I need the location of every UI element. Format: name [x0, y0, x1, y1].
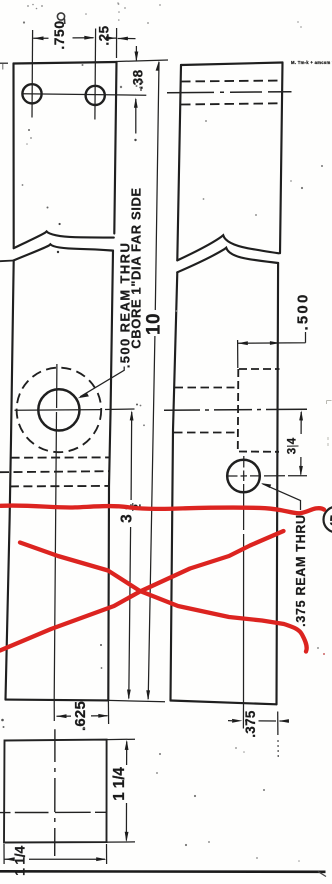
hole H4 horizontal centerline [226, 475, 307, 477]
view 2 hidden slot left line [237, 369, 240, 452]
svg-text:3: 3 [287, 448, 299, 454]
hole H3 .500 ream cbore [38, 389, 79, 430]
svg-text:.625: .625 [72, 701, 89, 731]
view 1 break line upper curve [14, 231, 114, 248]
leader to .375 ream hole [263, 484, 301, 510]
view 2 bar outline top edge [181, 63, 283, 66]
view 1 hidden line 2 [0, 471, 109, 472]
svg-text:CBORE 1"DIA FAR SIDE: CBORE 1"DIA FAR SIDE [129, 187, 144, 348]
view 1 bar left edge upper [12, 64, 14, 249]
svg-text:.500: .500 [295, 293, 312, 331]
red reviewer line [1, 506, 325, 514]
view 2 top centerline dash-dot [167, 92, 292, 93]
red X stroke A [0, 531, 284, 651]
extension of bottom edge to right [108, 700, 165, 701]
view 1 bar bottom edge [6, 699, 109, 702]
view 2 bar left edge upper [177, 65, 181, 260]
hole H2 right .25 drill [86, 86, 105, 105]
dimension 1 1/4 bottom [4, 844, 107, 864]
svg-text:4: 4 [287, 437, 299, 444]
svg-text:3: 3 [119, 514, 136, 523]
view 1 break line lower curve [14, 244, 113, 260]
dimension 10 [148, 62, 159, 699]
svg-text:.375 REAM THRU: .375 REAM THRU [294, 514, 308, 627]
end view vertical centerline [54, 729, 56, 856]
left margin fragment at break [0, 260, 14, 263]
hole H4 .375 ream [227, 460, 260, 493]
stray pen mark top [57, 13, 64, 24]
leader arrowhead ream [261, 483, 271, 488]
view 2 bar right edge lower [277, 263, 279, 704]
view 2 slot centerline dash-dot [164, 409, 307, 410]
svg-text:.375: .375 [243, 710, 258, 738]
dimension 3 1/2 [129, 412, 132, 699]
view 1 bar left edge lower [6, 260, 14, 699]
dimension .625 [57, 715, 108, 717]
view 2 hidden slot bottom line [239, 451, 279, 453]
view 1 hidden line 1 [11, 456, 109, 458]
view 1 bar outline top edge [14, 62, 117, 64]
extension line top edge to right [117, 60, 169, 62]
hole H1 left .25 drill [22, 84, 41, 103]
dimension .38 [135, 46, 138, 134]
leader arrowhead cbore [78, 393, 89, 398]
dimension .25 [111, 37, 136, 40]
hole H2 vertical centerline [94, 29, 97, 120]
view 2 hidden line left lower [174, 432, 236, 434]
extension line right edge top [116, 28, 118, 58]
svg-text:M. Tm-k + amcsm w: M. Tm-k + amcsm w [291, 60, 332, 65]
sheet border bottom [0, 870, 326, 873]
view 2 bar left edge lower [171, 272, 178, 700]
end view outline [4, 740, 107, 843]
view 2 hidden hole bottom line [181, 103, 283, 104]
centerline through holes H1 H2 [22, 94, 146, 95]
dimension .500 view 2 [238, 332, 306, 368]
extension below bottom for .625 [107, 701, 109, 724]
view 2 hidden hole top line [181, 81, 283, 82]
left margin fragment top [0, 62, 8, 64]
faint margin marks right [327, 401, 332, 447]
svg-text:.38: .38 [130, 69, 145, 89]
view 2 break line upper curve [177, 235, 279, 260]
svg-text:1 1/4: 1 1/4 [111, 767, 128, 801]
svg-text:10: 10 [143, 313, 164, 335]
svg-text:.25: .25 [96, 25, 111, 45]
view 2 bar bottom edge [171, 701, 277, 705]
hole H3 vertical centerline [54, 364, 57, 699]
view 2 hidden line left upper [175, 387, 235, 389]
hole H3 horizontal centerline [15, 409, 135, 410]
svg-text:.750: .750 [51, 20, 67, 49]
leader to cbore hole [80, 367, 124, 397]
counterbore dashed circle 1 inch dia [17, 368, 102, 453]
dimension .375 bottom view 2 [228, 720, 289, 723]
view 1 bar right edge lower [108, 251, 113, 701]
balloon 5 partial circle [324, 507, 332, 533]
view 1 hidden line 3 [10, 485, 109, 488]
dimension .750 [33, 37, 93, 40]
view 1 bar right edge upper [114, 62, 116, 234]
hole H1 vertical centerline [31, 30, 34, 118]
red X stroke B [20, 543, 307, 652]
extension dotted below right [277, 740, 279, 758]
extension below bottom left .625 [53, 699, 55, 721]
view 2 break line lower curve [177, 248, 278, 273]
extension below view 2 centerline [242, 704, 244, 729]
sheet border end tick [318, 872, 326, 877]
view 2 bar right edge upper [280, 63, 283, 254]
extension below view 2 right edge [277, 712, 279, 736]
hole H4 vertical centerline [243, 456, 245, 704]
end view horizontal centerline [0, 811, 107, 813]
dimension 3/4 [300, 412, 302, 475]
view 2 hidden slot top line [239, 368, 280, 370]
dimension 1 1/4 right [107, 739, 136, 842]
